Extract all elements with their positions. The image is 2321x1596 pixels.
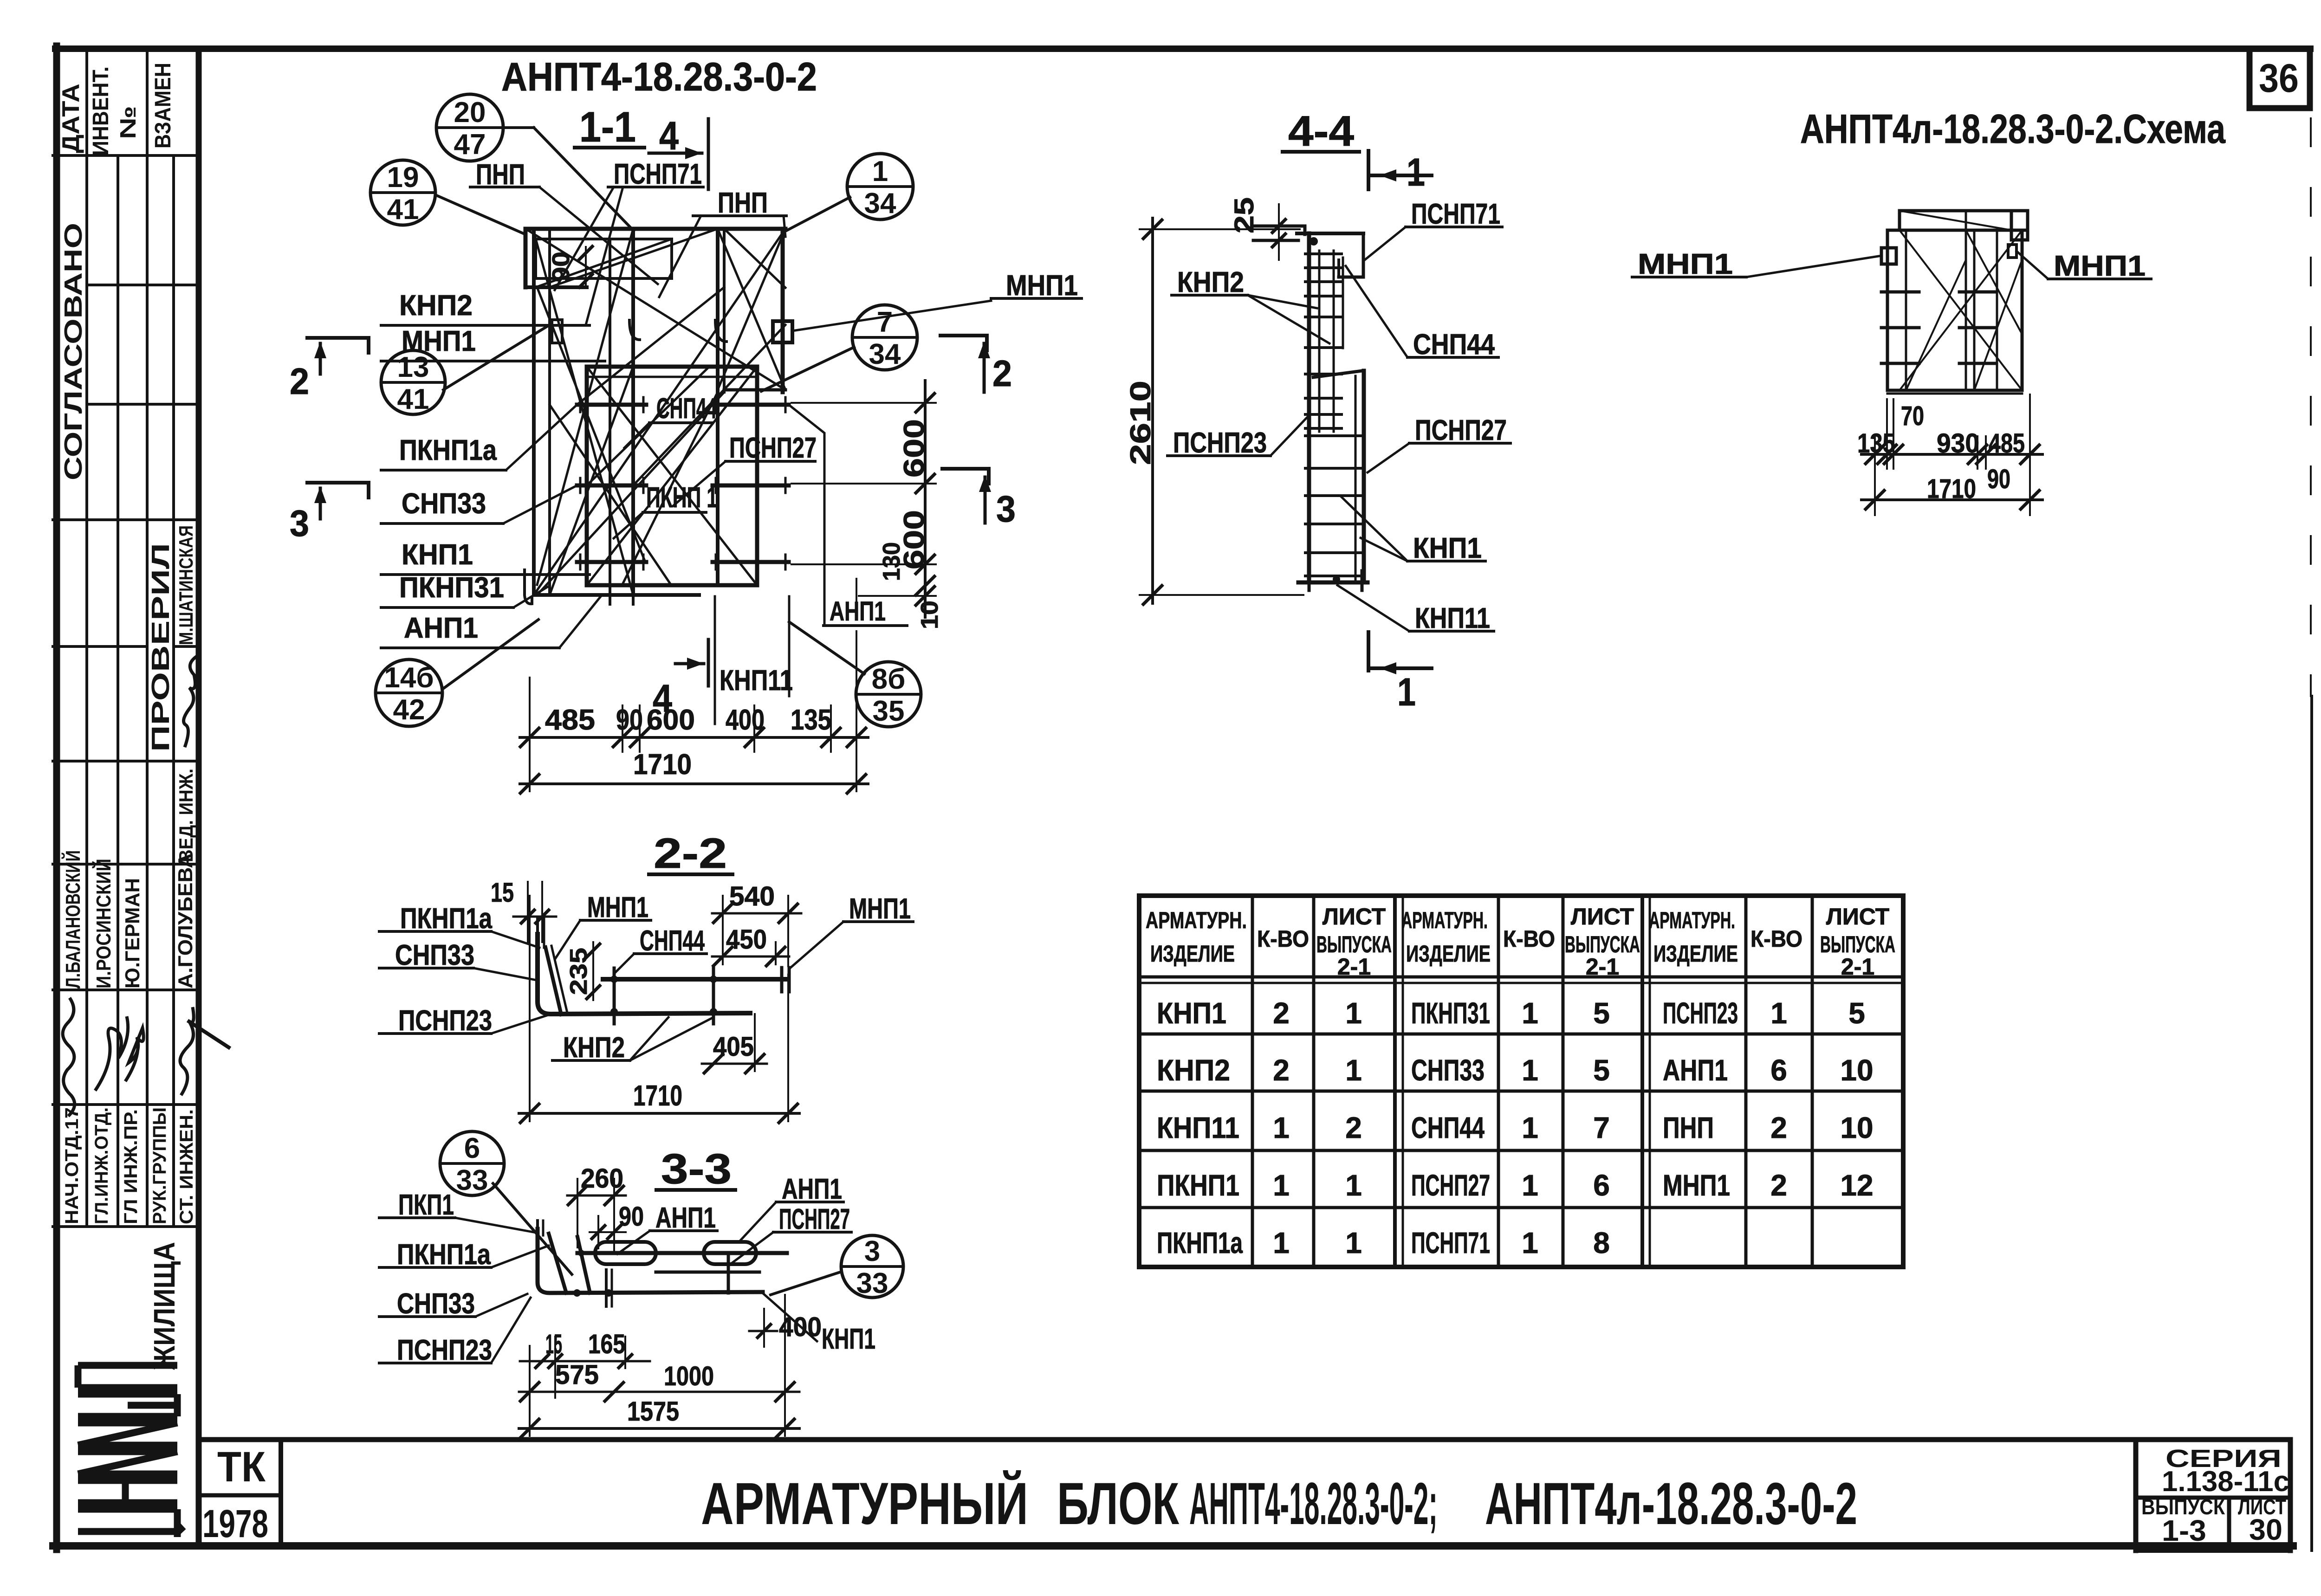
view 1-1 band inner rect (536, 239, 672, 278)
3-3 dim1575 line (519, 1427, 799, 1430)
svg-text:АНПТ4-18.28.3-0-2: АНПТ4-18.28.3-0-2 (501, 55, 817, 99)
svg-text:МНП1: МНП1 (402, 325, 476, 357)
svg-text:2: 2 (1273, 996, 1290, 1030)
signature squiggle col1 (63, 998, 75, 1116)
svg-text:1: 1 (1345, 1226, 1362, 1260)
2-2 dim1710 tick b (779, 1104, 797, 1123)
svg-text:АНПТ4-18.28.3-0-2;: АНПТ4-18.28.3-0-2; (1189, 1471, 1438, 1537)
strip row line y2133 (53, 989, 199, 991)
svg-text:НАЧ.ОТД.17: НАЧ.ОТД.17 (62, 1107, 82, 1224)
3-3 label СНП33 leader (475, 1294, 527, 1317)
svg-text:1: 1 (1522, 1169, 1538, 1202)
profile weld dot top (1310, 237, 1318, 246)
label СНП44 underline (649, 421, 713, 424)
view 1-1 rebar diagonal 6 (587, 367, 757, 585)
schema ext vertical x4065 (1886, 399, 1888, 469)
svg-text:2-1: 2-1 (1337, 954, 1371, 980)
schema corner block (2011, 211, 2028, 240)
3-3 bracket pin b (542, 1221, 545, 1235)
svg-text:485: 485 (545, 704, 595, 736)
schema label МНП1 right underline (2048, 278, 2151, 280)
dim 90 tick a (579, 246, 592, 259)
svg-text:И.РОСИНСКИЙ: И.РОСИНСКИЙ (91, 859, 115, 989)
svg-text:2: 2 (1770, 1169, 1787, 1202)
2-2 dim450 tick b (766, 947, 785, 966)
svg-text:ПКНП1а: ПКНП1а (400, 903, 492, 935)
2-2 dim15 tick b (536, 910, 549, 923)
svg-text:ПСНП27: ПСНП27 (779, 1203, 850, 1235)
dim 90 line (585, 247, 587, 285)
svg-text:ГЛ ИНЖ.ПР.: ГЛ ИНЖ.ПР. (121, 1109, 141, 1224)
svg-text:ПКП1: ПКП1 (398, 1189, 454, 1221)
svg-text:33: 33 (856, 1267, 888, 1299)
3-3 weld dot b (573, 1289, 581, 1297)
svg-text:ПСНП23: ПСНП23 (1173, 427, 1267, 459)
svg-text:6: 6 (1593, 1169, 1610, 1202)
3-3 label КНП1 leader (764, 1294, 817, 1341)
svg-text:АРМАТУРНЫЙ: АРМАТУРНЫЙ (701, 1470, 1028, 1537)
dim ext vertical x1341 (622, 705, 623, 752)
2-2 label ПКНП1а underline (379, 930, 491, 933)
svg-text:19: 19 (387, 162, 419, 194)
svg-text:РУК.ГРУППЫ: РУК.ГРУППЫ (149, 1107, 170, 1224)
strip row line y1393 (left part) (53, 645, 147, 648)
section mark 3 left tick (367, 483, 370, 498)
callout 13/41 (381, 350, 445, 415)
svg-text:ЛИСТ: ЛИСТ (1826, 904, 1889, 930)
base serif b (1361, 571, 1364, 590)
schema anchor plate left (1881, 248, 1896, 264)
section label 3-3 underline (656, 1188, 735, 1192)
strip row line y2380 (53, 1103, 199, 1106)
3-3 dim1575 tick a (520, 1419, 539, 1438)
label ПСНП71 leader b (586, 187, 623, 325)
svg-text:Л.БАЛАНОВСКИЙ: Л.БАЛАНОВСКИЙ (61, 850, 84, 989)
3-3 tick c (619, 1355, 632, 1368)
section 1 bottom cut line (1367, 632, 1370, 671)
svg-text:ЛИСТ: ЛИСТ (1323, 904, 1386, 930)
schema tick right y629 (1959, 291, 1995, 294)
rebar tick serif (784, 397, 787, 412)
svg-text:№: № (116, 106, 141, 139)
section mark 3 right arrowhead (979, 475, 991, 492)
ladder bar d (1355, 376, 1357, 582)
strip column line x317 (146, 52, 149, 1227)
signature squiggle col3 (125, 1028, 143, 1081)
section 1 bottom arrow line (1368, 666, 1432, 670)
svg-text:3: 3 (290, 503, 309, 544)
schema vertical d (1996, 230, 1998, 390)
callout 19/41 leader (435, 195, 525, 234)
2-2 dim450 line (712, 956, 789, 958)
dim right tick y1042 (916, 474, 934, 493)
dim 2610 ext top (1140, 228, 1300, 230)
schema dim lower tick a (1866, 491, 1884, 509)
svg-text:135: 135 (791, 704, 831, 736)
dim tick x1378 (630, 728, 649, 747)
view 1-1 right rail (716, 229, 720, 583)
signature squiggle col2 (95, 1016, 128, 1091)
svg-text:АРМАТУРН.: АРМАТУРН. (1401, 907, 1488, 933)
profile right rail lower (1362, 371, 1366, 582)
label МНП1 left underline (381, 360, 605, 362)
svg-text:90: 90 (1987, 464, 2010, 494)
seriya block bottom (2136, 1548, 2290, 1553)
svg-text:1-1: 1-1 (579, 103, 636, 151)
label АНП1 leader (559, 596, 601, 648)
svg-text:ПСНП23: ПСНП23 (397, 1334, 492, 1366)
label ПКНП31 leader (513, 586, 550, 607)
3-3 dim90 tick b (608, 1226, 621, 1239)
schema vertical b (1965, 211, 1967, 390)
svg-text:1-3: 1-3 (2162, 1514, 2206, 1547)
dim ext vertical x1625 (753, 705, 755, 752)
svg-text:КНП2: КНП2 (1177, 266, 1244, 298)
schema ext vertical x4039 (1874, 436, 1876, 515)
label ПНП right leader b (784, 216, 785, 237)
dim 25 tick b (1272, 234, 1285, 247)
schema dim lower tick b (2021, 491, 2039, 509)
profile top ledge lower (1253, 239, 1298, 242)
dim tick 1710 a (520, 775, 539, 793)
outer frame bottom border (53, 1542, 2293, 1550)
hook bottom left (525, 570, 532, 604)
section label 2-2 underline (649, 872, 733, 876)
3-3 label ПСНП27 leader (732, 1232, 773, 1263)
2-2 label СНП44 leader (615, 954, 634, 973)
svg-text:СНП33: СНП33 (402, 488, 486, 520)
svg-text:ЛИСТ: ЛИСТ (1571, 904, 1634, 930)
schema label МНП1 left underline (1632, 276, 1746, 278)
2-2 slanted member (545, 947, 561, 1014)
label ПСНП23 44 leader (1271, 417, 1308, 456)
callout 1/34 (847, 154, 913, 220)
2-2 dim235 tick a (587, 944, 600, 957)
2-2 dim405 line (702, 1063, 767, 1065)
2-2 label МНП1 right underline (843, 920, 913, 923)
ladder rung wide y1191 (1305, 551, 1361, 554)
2-2 dim450 tick a (713, 947, 732, 966)
dim right tick y1284 (916, 587, 934, 605)
profile bottom base (1298, 581, 1368, 585)
label СНП44 44 leader (1346, 266, 1407, 357)
2-2 dim1710 tick a (520, 1104, 539, 1123)
label КНП1 44 underline (1407, 560, 1485, 562)
callout 20/47 (436, 94, 503, 161)
callout 14б/42 leader (442, 620, 538, 689)
view 1-1 extra rebar diagonal 15 (577, 287, 724, 405)
svg-text:1.138-11с: 1.138-11с (2162, 1466, 2289, 1498)
3-3 label ПКП1 underline (379, 1216, 455, 1219)
schema diagonal 5 (1966, 230, 2022, 334)
view 1-1 extra rebar diagonal 16 (537, 287, 645, 562)
svg-text:260: 260 (581, 1163, 623, 1194)
label ПСНП27 leader (673, 461, 726, 506)
3-3 pin d (611, 1270, 613, 1306)
callout 3/33 leader (771, 1272, 842, 1295)
dim 2610 tick top (1143, 220, 1162, 239)
schema dim tick x4065 (1878, 445, 1896, 464)
title bar top line (199, 1437, 2290, 1442)
3-3 left bracket bar (538, 1229, 763, 1293)
seriya block right edge (2288, 1440, 2293, 1551)
svg-text:2: 2 (1345, 1111, 1362, 1144)
view 1-1 band left edge (524, 229, 528, 287)
svg-text:СНП44: СНП44 (656, 393, 717, 425)
svg-text:90: 90 (619, 1202, 644, 1232)
svg-text:МНП1: МНП1 (1638, 248, 1733, 280)
view 1-1 rebar diagonal 8 (536, 239, 672, 287)
view 1-1 cage top double (587, 376, 757, 378)
table col line c2 (1402, 896, 1404, 1267)
svg-text:ИЗДЕЛИЕ: ИЗДЕЛИЕ (1150, 941, 1235, 967)
section mark 2 left tick (367, 338, 370, 353)
view 1-1 left rail inner (548, 229, 551, 595)
svg-text:КНП11: КНП11 (1415, 602, 1490, 634)
2-2 label ПСНП23 underline (379, 1032, 491, 1035)
dim ext vertical x1141 (529, 678, 531, 791)
strip logo ЦНИИЭП (blocky, rotated) (78, 1365, 183, 1537)
schema dim tick x4039 (1866, 445, 1884, 464)
label КНП11 ext b (788, 596, 791, 696)
label АНП1 callout boundary (789, 405, 824, 626)
ladder rung y547 (1305, 252, 1342, 255)
svg-text:41: 41 (387, 194, 419, 226)
3-3 dim90 tick a (592, 1226, 605, 1239)
svg-text:СОГЛАСОВАНО: СОГЛАСОВАНО (59, 223, 87, 480)
3-3 hairpin loop b (704, 1242, 756, 1264)
svg-text:20: 20 (454, 97, 486, 129)
svg-text:ИЗДЕЛИЕ: ИЗДЕЛИЕ (1406, 941, 1491, 967)
dim 2610 ext bottom (1140, 594, 1303, 596)
callout 6/33 (440, 1131, 504, 1196)
svg-text:КНП2: КНП2 (1157, 1053, 1230, 1087)
3-3 dim1000 tick (776, 1383, 794, 1401)
svg-text:ЖИЛИЩА: ЖИЛИЩА (148, 1242, 181, 1370)
schema dim tick x4079 (1884, 445, 1903, 464)
2-2 label ПКНП1а leader (491, 931, 539, 948)
psnp71 block right edge (1362, 233, 1365, 277)
svg-text:1: 1 (872, 155, 888, 187)
svg-text:МНП1: МНП1 (1006, 270, 1078, 302)
ladder rung wide y1129 (1305, 523, 1361, 525)
3-3 dim260 tick a (568, 1186, 587, 1205)
view 1-1 band bottom left (525, 285, 587, 289)
2-2 pin a (613, 968, 616, 1024)
3-3 label СНП33 underline (379, 1315, 475, 1318)
callout 20/47 leader a (503, 126, 534, 129)
label СНП33 left underline (381, 522, 503, 525)
rebar tick serif (579, 397, 582, 412)
schema ext vertical x4260 (1977, 436, 1978, 469)
svg-text:1: 1 (1273, 1169, 1290, 1202)
svg-text:ПСНП71: ПСНП71 (614, 158, 702, 190)
ladder rung y683 (1305, 316, 1342, 318)
svg-text:АНП1: АНП1 (1663, 1053, 1728, 1087)
ladder rung y577 (1305, 266, 1342, 269)
section 1 bottom arrowhead (1380, 662, 1396, 674)
outer frame right border lower (2310, 696, 2313, 1551)
svg-text:МНП1: МНП1 (1663, 1169, 1730, 1202)
table col line h (1811, 896, 1814, 1267)
ladder rung wide y1068 (1305, 494, 1361, 497)
callout 7/34 (852, 305, 917, 370)
label КНП11 44 leader (1337, 585, 1409, 631)
3-3 label АНП1 mid underline (650, 1229, 717, 1232)
section mark 3 right line (942, 467, 989, 471)
schema dim tick x4260 (1968, 445, 1987, 464)
ladder rung y806 (1305, 373, 1342, 375)
svg-text:СНП33: СНП33 (395, 939, 474, 971)
rebar tick serif (784, 555, 787, 569)
2-2 label КНП2 leader b (630, 1017, 668, 1060)
table col line c1 (1393, 896, 1397, 1267)
svg-text:1: 1 (1522, 996, 1538, 1030)
2-2 label МНП1 mid underline (580, 919, 651, 922)
section mark 2 right line (940, 334, 987, 337)
schema band rect (1900, 211, 2028, 230)
svg-text:ПКНП1а: ПКНП1а (399, 434, 497, 466)
svg-text:7: 7 (1593, 1111, 1610, 1144)
profile top cap (1297, 232, 1363, 235)
2-2 dim540 line (712, 912, 801, 915)
label КНП1 44 leader a (1342, 497, 1407, 561)
rebar tick serif (642, 397, 645, 412)
2-2 pin b (712, 968, 715, 1024)
dim tick x1845 (847, 728, 866, 747)
ladder rung wide y1241 (1305, 575, 1361, 577)
2-2 label КНП2 leader a (630, 1017, 713, 1060)
view 1-1 extra rebar diagonal 12 (537, 392, 724, 595)
strip row line y871 (87, 403, 199, 406)
svg-text:10: 10 (1840, 1053, 1873, 1087)
svg-text:41: 41 (397, 383, 429, 415)
label КНП11 44 underline (1409, 630, 1494, 633)
schema band divider (2010, 211, 2013, 230)
callout 13/41 leader (443, 325, 550, 390)
svg-text:ВЗАМЕН: ВЗАМЕН (151, 63, 175, 149)
svg-text:ПНП: ПНП (718, 187, 768, 219)
svg-text:СТ. ИНЖЕН.: СТ. ИНЖЕН. (176, 1109, 197, 1224)
3-3 label ПСНП23 leader (491, 1298, 531, 1363)
svg-text:К-ВО: К-ВО (1257, 926, 1309, 952)
svg-text:МНП1: МНП1 (587, 892, 648, 924)
svg-text:12: 12 (1840, 1169, 1873, 1202)
svg-text:СНП33: СНП33 (397, 1288, 475, 1320)
2-2 dim1710 ext a (529, 896, 531, 1121)
svg-text:КНП1: КНП1 (822, 1323, 875, 1355)
2-2 slanted member b (551, 946, 567, 1013)
rebar tick row2 right (713, 484, 789, 488)
profile left rail (1307, 233, 1311, 582)
label ПНП right underline (693, 214, 786, 217)
schema label МНП1 left leader (1746, 256, 1881, 277)
label ПСНП71 underline (608, 186, 703, 188)
strip row line y1393 (right part) (174, 645, 199, 648)
callout 3/33 (841, 1235, 903, 1299)
svg-text:2: 2 (1770, 1111, 1787, 1144)
svg-text:ПКНП31: ПКНП31 (399, 572, 504, 604)
table col line d (1497, 896, 1500, 1267)
svg-text:450: 450 (726, 924, 767, 955)
view 1-1 rebar diagonal 2 (534, 229, 785, 595)
2-2 dim1710 line (519, 1112, 799, 1115)
outer frame left border (53, 46, 60, 1550)
dim tick 1710 b (847, 775, 866, 793)
svg-text:ПРОВЕРИЛ: ПРОВЕРИЛ (147, 543, 175, 752)
table row line 3 (1139, 1149, 1903, 1152)
callout 7/34 leader (761, 347, 854, 391)
2-2 dim540 ext a (722, 896, 724, 964)
view 1-1 right box X diagonal b (718, 229, 785, 390)
label СНП44 44 underline (1407, 356, 1498, 359)
schema dim tick x4373 (2021, 445, 2039, 464)
profile top ledge upper (1253, 225, 1305, 228)
signature Мша (184, 656, 197, 747)
svg-text:М.ШАТИНСКАЯ: М.ШАТИНСКАЯ (175, 525, 197, 645)
label АНП1 right underline (823, 624, 907, 627)
dim line 1710 lower (520, 782, 868, 785)
table col line a (1251, 896, 1254, 1267)
label МНП1 right underline (991, 297, 1082, 300)
table col line e (1562, 896, 1565, 1267)
schema vertical c (1973, 230, 1976, 390)
3-3 dim260 ext a (577, 1179, 578, 1247)
2-2 end tick a (780, 968, 784, 992)
2-2 dim540 tick b (779, 904, 797, 923)
section 4 bottom cut line (707, 640, 710, 686)
svg-text:6: 6 (464, 1132, 480, 1164)
svg-text:14б: 14б (384, 662, 434, 694)
label ПСНП27 44 underline (1409, 442, 1511, 445)
svg-text:1: 1 (1345, 1169, 1362, 1202)
TK/1978 divider (199, 1493, 281, 1498)
svg-text:Ю.ГЕРМАН: Ю.ГЕРМАН (121, 878, 144, 989)
svg-text:ПСНП23: ПСНП23 (1663, 996, 1738, 1030)
section mark 2 right tick (985, 336, 989, 350)
section mark 2 right arrow line (983, 343, 986, 392)
section 1 top arrowhead (1380, 169, 1396, 181)
svg-text:А.ГОЛУБЕВА: А.ГОЛУБЕВА (174, 853, 197, 989)
table row line 4 (1139, 1206, 1903, 1209)
svg-text:42: 42 (393, 694, 425, 726)
rebar tick row2 left (577, 484, 646, 488)
section mark 2 left line (307, 336, 369, 340)
schema vertical a (1905, 230, 1907, 390)
svg-text:1: 1 (1522, 1053, 1538, 1087)
3-3 ext x1347 (624, 1337, 626, 1368)
svg-text:1: 1 (1273, 1226, 1290, 1260)
schema diagonal 1 (1900, 230, 2022, 390)
svg-text:АНП1: АНП1 (655, 1202, 716, 1234)
3-3 mid bar (656, 1271, 759, 1274)
svg-text:2: 2 (992, 353, 1012, 394)
view 1-1 rebar diagonal 5 (587, 367, 757, 585)
callout 8б/35 (856, 662, 921, 727)
dim right ext y1284 (859, 595, 936, 597)
svg-text:ГЛ.ИНЖ.ОТД.: ГЛ.ИНЖ.ОТД. (91, 1107, 112, 1224)
dim ext vertical x1790 (830, 705, 832, 752)
svg-text:МНП1: МНП1 (2054, 250, 2146, 282)
section 4 bottom arrow line (675, 662, 704, 666)
schema tick right y783 (1959, 362, 1995, 365)
vypusk/list divider (2227, 1498, 2231, 1551)
view 1-1 inner cage rect (587, 367, 757, 585)
dim 2610 line (1151, 218, 1154, 603)
2-2 bracket top pin (543, 918, 545, 948)
schema label МНП1 right leader (2016, 251, 2048, 279)
view 1-1 right rail inner (723, 229, 726, 392)
